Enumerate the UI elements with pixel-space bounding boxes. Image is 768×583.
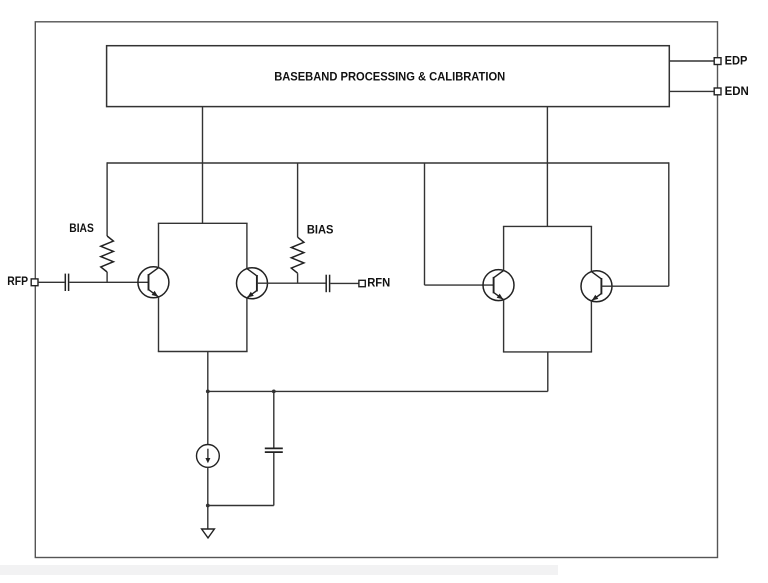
wire to Q3 base <box>425 284 494 286</box>
wire C1 to Q1 base <box>69 281 148 283</box>
ground <box>202 529 215 538</box>
wire C3 to ground node <box>273 453 275 506</box>
svg-text:BASEBAND PROCESSING & CALIBRAT: BASEBAND PROCESSING & CALIBRATION <box>274 69 505 83</box>
wire R2 to Q2 base <box>297 273 299 283</box>
svg-text:RFN: RFN <box>367 277 390 290</box>
pin EDP <box>714 58 721 65</box>
wire bus down to R2 <box>297 163 299 237</box>
scan artifact band <box>0 565 558 575</box>
capacitor C2 <box>325 275 327 293</box>
wire RFP pin to C1 <box>38 281 65 283</box>
junction tail node left <box>206 390 210 394</box>
wire bus down to Q3 base <box>424 163 426 285</box>
wire C2 to RFN pin <box>330 282 359 284</box>
pin RFN <box>359 280 365 286</box>
transistor Q2 <box>237 268 268 299</box>
ground node wire <box>208 505 274 507</box>
svg-text:BIAS: BIAS <box>307 223 334 236</box>
transistor Q4 <box>581 271 612 302</box>
wire Q3 collector <box>503 226 505 270</box>
svg-text:RFP: RFP <box>7 275 28 288</box>
wire EDN from U1 to pin <box>669 90 714 92</box>
junction capacitor tap <box>272 390 276 394</box>
svg-text:EDN: EDN <box>725 85 749 98</box>
wire Q2 emitter <box>246 298 248 352</box>
wire bus down to R1 <box>106 162 108 236</box>
svg-text:EDP: EDP <box>725 55 748 68</box>
wire U1 output down to left pair collectors <box>202 107 204 224</box>
transistor Q3 <box>483 270 514 301</box>
wire tail to current source I1 <box>207 391 209 444</box>
resistor R2 BIAS <box>291 237 304 273</box>
current source I1 <box>197 445 220 468</box>
capacitor C3 <box>265 447 283 449</box>
bias bus wire <box>107 162 669 164</box>
resistor R1 BIAS <box>101 236 114 272</box>
wire Q1 emitter <box>158 297 160 352</box>
wire left pair tail <box>207 352 209 392</box>
wire Q2 base to C2 <box>257 282 326 284</box>
wire Q1 collector <box>158 223 160 267</box>
transistor Q1 <box>138 267 169 298</box>
junction ground node <box>206 504 210 508</box>
wire R1 to Q1 base <box>106 272 108 282</box>
tail node wire <box>208 390 548 392</box>
wire right pair tail <box>547 352 549 392</box>
capacitor C1 <box>64 274 66 291</box>
left pair collector tie wire <box>158 222 248 224</box>
pin RFP <box>31 279 38 286</box>
wire Q4 base to bus drop <box>601 285 668 287</box>
wire tail to capacitor C3 <box>273 391 275 447</box>
right pair collector tie wire <box>503 225 592 227</box>
baseband processing block U1 <box>107 46 670 107</box>
left pair emitter tie wire <box>158 351 248 353</box>
wire Q3 emitter <box>503 300 505 352</box>
wire bus down to Q4 base <box>668 162 670 286</box>
wire Q2 collector <box>246 223 248 268</box>
wire EDP from U1 to pin <box>669 60 714 62</box>
pin EDN <box>714 88 721 95</box>
wire U1 output down to right pair collectors <box>546 107 548 227</box>
right pair emitter tie wire <box>503 351 592 353</box>
wire Q4 collector <box>590 226 592 271</box>
svg-text:BIAS: BIAS <box>69 222 94 235</box>
wire to ground symbol <box>207 506 209 530</box>
wire Q4 emitter <box>590 301 592 352</box>
wire I1 to ground node <box>207 467 209 505</box>
